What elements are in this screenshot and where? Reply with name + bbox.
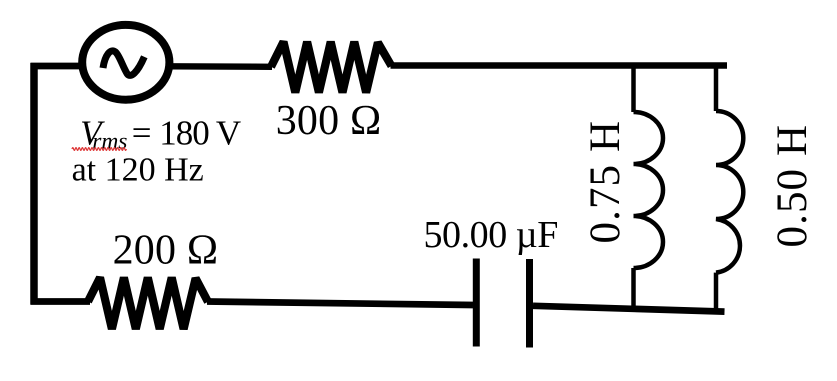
capacitor C1 left plate bbox=[473, 259, 480, 347]
wire: left vertical wire bbox=[30, 63, 38, 305]
wire: bottom wire from resistor R2 to capacitor C1 bbox=[207, 302, 473, 306]
inductor L2 coils 0.50 H bbox=[716, 111, 743, 273]
svg-text:50.00 µF: 50.00 µF bbox=[424, 214, 558, 256]
svg-text:0.75 H: 0.75 H bbox=[582, 120, 629, 244]
red squiggle under Vrms bbox=[72, 148, 126, 151]
AC source sine symbol bbox=[103, 51, 144, 76]
svg-text:0.50 H: 0.50 H bbox=[769, 124, 816, 248]
svg-text:200 Ω: 200 Ω bbox=[113, 228, 219, 274]
svg-text:at 120 Hz: at 120 Hz bbox=[72, 151, 204, 188]
inductor L1 coils 0.75 H bbox=[634, 112, 664, 268]
inductor L2 top lead bbox=[714, 63, 719, 111]
inductor L1 bottom lead bbox=[631, 268, 636, 308]
svg-text:300 Ω: 300 Ω bbox=[276, 98, 382, 144]
wire: top-left stub from corner to AC source bbox=[31, 63, 83, 70]
AC source V1 circle bbox=[82, 25, 169, 100]
wire: top wire from resistor R1 to inductor branch bbox=[391, 62, 728, 69]
resistor R2 200 ohm zigzag bbox=[88, 278, 208, 329]
resistor R1 300 ohm zigzag bbox=[271, 42, 392, 93]
wire: bottom-left from corner to resistor R2 bbox=[31, 298, 91, 305]
capacitor C1 right plate bbox=[526, 259, 533, 348]
wire: top wire from AC source to resistor R1 bbox=[169, 63, 272, 70]
wire: bottom wire from capacitor C1 to inductor branch bbox=[533, 306, 725, 312]
inductor L2 bottom lead bbox=[714, 273, 719, 313]
inductor L1 top lead bbox=[631, 63, 636, 112]
